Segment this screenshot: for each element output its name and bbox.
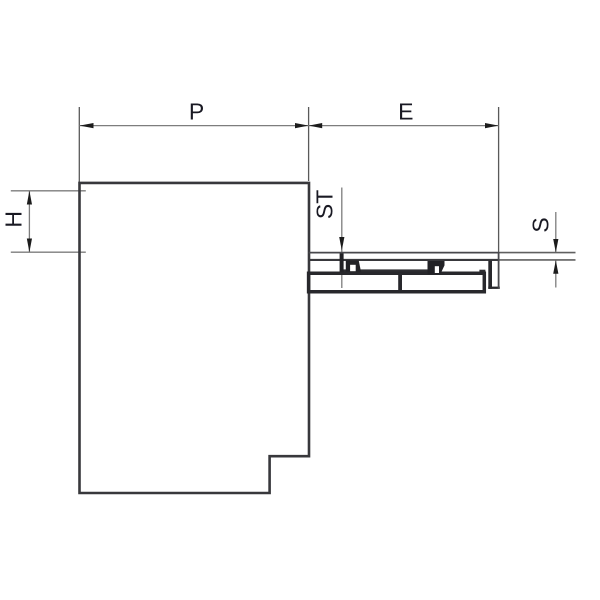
- svg-text:P: P: [189, 99, 204, 125]
- svg-text:S: S: [527, 217, 553, 232]
- svg-text:H: H: [0, 211, 26, 228]
- svg-text:E: E: [398, 99, 413, 125]
- svg-text:ST: ST: [312, 190, 338, 219]
